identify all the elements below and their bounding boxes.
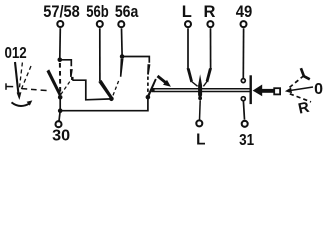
lever indicator arrowhead	[285, 88, 292, 94]
svg-text:012: 012	[4, 45, 26, 62]
push rod	[249, 75, 251, 104]
wire pin to terminal L bottom	[199, 100, 202, 120]
dashed contact 56a to node A	[113, 81, 119, 96]
contact tip L	[187, 68, 193, 82]
terminal 56b	[97, 21, 103, 27]
wire 31 lead	[243, 101, 244, 120]
blade position0	[47, 69, 62, 96]
svg-text:L: L	[182, 3, 192, 21]
wire R contact lead	[210, 28, 212, 68]
dashed link to node B	[147, 77, 149, 94]
contact tip position1	[70, 69, 73, 77]
wire L contact lead	[187, 28, 189, 68]
node J30	[58, 108, 63, 113]
svg-text:56b: 56b	[86, 3, 109, 21]
terminal 30	[56, 121, 62, 127]
node A dimmer pivot	[109, 97, 114, 102]
svg-text:0: 0	[314, 81, 323, 98]
contact tip 56a	[120, 59, 124, 77]
knob dashed ray position1	[19, 63, 22, 90]
wire 56b lead	[99, 28, 101, 81]
lever dashed ray R	[290, 94, 311, 102]
contact bar top line	[151, 88, 250, 90]
svg-text:R: R	[204, 3, 216, 21]
svg-text:56a: 56a	[115, 3, 139, 21]
svg-text:31: 31	[239, 132, 254, 149]
contact circle 49 upper	[241, 79, 245, 83]
wire 49 lead	[242, 28, 244, 78]
contact tip parking	[147, 64, 150, 75]
svg-text:30: 30	[52, 127, 70, 144]
dashed blade position1	[59, 63, 61, 92]
wire 57/58 lead	[59, 28, 62, 58]
pivot node P1	[58, 95, 63, 100]
lever indicator arrow	[289, 87, 314, 91]
dashed blade position2	[61, 80, 71, 95]
terminal 56a	[118, 21, 124, 27]
lever arrow tail box	[274, 88, 280, 94]
wire pivot to junction	[59, 97, 61, 110]
rotation arc arrowhead	[27, 100, 33, 105]
svg-text:49: 49	[236, 3, 253, 21]
contact bar bottom line	[151, 91, 250, 93]
terminal R top	[207, 21, 213, 27]
knob link dashed	[22, 89, 47, 91]
svg-text:L: L	[196, 131, 205, 148]
lever arrow head	[253, 85, 263, 97]
node B turn-signal feed	[146, 95, 151, 100]
terminal L top	[185, 21, 191, 27]
knob dashed ray position2	[21, 66, 31, 91]
terminal 49	[241, 21, 247, 27]
contact circle 31 lower	[241, 97, 245, 101]
rotation arc	[12, 102, 31, 106]
lever dashed ray L	[290, 74, 306, 87]
wire to terminal 30	[59, 111, 60, 121]
actuation arrow middle	[157, 75, 171, 87]
svg-text:57/58: 57/58	[43, 3, 80, 21]
label L lever	[301, 68, 310, 79]
wire J56a to parking contact	[122, 57, 149, 63]
terminal L bottom	[196, 120, 202, 126]
knob stop tick	[5, 83, 7, 90]
terminal 57/58	[57, 21, 63, 27]
node J56a	[120, 54, 125, 59]
wire 56a lead	[121, 28, 124, 55]
blade B parking	[147, 79, 157, 98]
lever arrow shaft	[262, 89, 274, 93]
knob pointer solid	[15, 62, 18, 94]
node D1 junction	[58, 58, 63, 63]
contact tip R	[206, 68, 212, 82]
blade 56b	[98, 80, 112, 99]
node pin junction	[198, 96, 202, 100]
centre contact pin to lamp L	[198, 74, 202, 101]
wire D1 branch to position-1 contact	[60, 60, 72, 67]
wire W1 contact to dimmer	[71, 77, 74, 80]
bar left tip	[151, 88, 155, 92]
knob pointer arrowhead	[17, 92, 22, 100]
wire bottom rail 30 to node B	[60, 99, 148, 111]
knob link solid	[6, 86, 13, 88]
terminal 31	[242, 121, 248, 127]
